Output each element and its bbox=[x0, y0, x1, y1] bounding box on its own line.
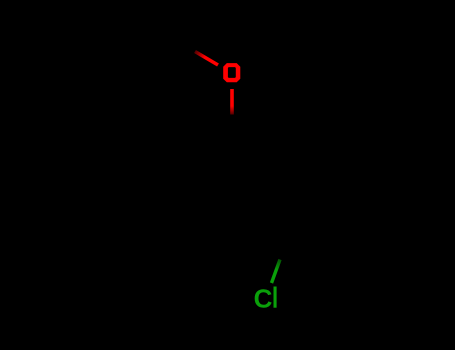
svg-text:C: C bbox=[254, 284, 273, 314]
bond O-C2 (red half, wire) bbox=[230, 89, 234, 115]
bond C-Cl (green half, wire) bbox=[272, 260, 281, 284]
bond CH3-O (red half, wire) bbox=[195, 52, 218, 66]
atom label O bbox=[223, 63, 240, 82]
